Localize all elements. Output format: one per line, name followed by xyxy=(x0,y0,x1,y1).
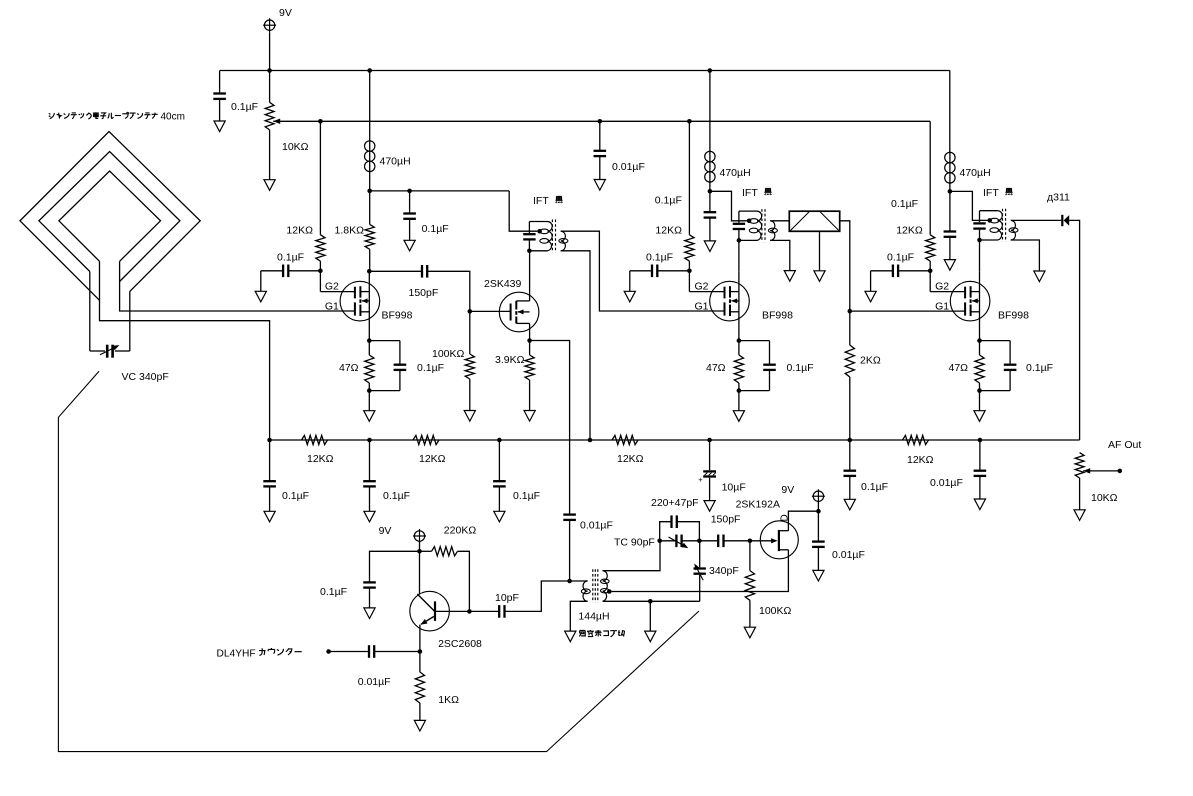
svg-text:47Ω: 47Ω xyxy=(339,362,359,374)
svg-text:470µH: 470µH xyxy=(720,167,751,179)
svg-text:1KΩ: 1KΩ xyxy=(438,694,459,706)
svg-text:0.1µF: 0.1µF xyxy=(787,362,814,374)
svg-text:TC 90pF: TC 90pF xyxy=(614,537,655,549)
svg-text:D: D xyxy=(780,514,791,521)
svg-text:150pF: 150pF xyxy=(409,287,439,299)
svg-text:0.1µF: 0.1µF xyxy=(646,252,673,264)
svg-text:100KΩ: 100KΩ xyxy=(432,348,465,360)
svg-text:BF998: BF998 xyxy=(762,310,793,322)
svg-text:BF998: BF998 xyxy=(998,310,1029,322)
svg-text:12KΩ: 12KΩ xyxy=(896,225,923,237)
svg-text:144µH: 144µH xyxy=(578,611,609,623)
svg-text:0.1µF: 0.1µF xyxy=(861,481,888,493)
svg-text:2SC2608: 2SC2608 xyxy=(438,638,482,650)
svg-text:BF998: BF998 xyxy=(382,310,413,322)
svg-text:0.01µF: 0.01µF xyxy=(930,477,963,489)
svg-text:100KΩ: 100KΩ xyxy=(759,605,792,617)
svg-text:150pF: 150pF xyxy=(711,514,741,526)
svg-text:0.1µF: 0.1µF xyxy=(655,195,682,207)
svg-text:12KΩ: 12KΩ xyxy=(286,225,313,237)
svg-text:G2: G2 xyxy=(325,281,339,293)
svg-text:0.1µF: 0.1µF xyxy=(1026,362,1053,374)
svg-text:2KΩ: 2KΩ xyxy=(860,355,881,367)
svg-text:47Ω: 47Ω xyxy=(949,362,969,374)
svg-text:д311: д311 xyxy=(1047,192,1070,204)
svg-text:12KΩ: 12KΩ xyxy=(419,453,446,465)
svg-text:IFT: IFT xyxy=(742,187,758,199)
svg-text:340pF: 340pF xyxy=(709,565,739,577)
svg-text:G1: G1 xyxy=(325,301,339,313)
svg-text:+: + xyxy=(698,475,703,484)
svg-text:IFT: IFT xyxy=(983,187,999,199)
svg-text:10KΩ: 10KΩ xyxy=(282,141,309,153)
svg-text:G2: G2 xyxy=(695,281,709,293)
svg-text:G1: G1 xyxy=(935,301,949,313)
svg-text:0.1µF: 0.1µF xyxy=(887,252,914,264)
svg-text:12KΩ: 12KΩ xyxy=(655,225,682,237)
svg-text:220KΩ: 220KΩ xyxy=(444,525,477,537)
svg-text:0.1µF: 0.1µF xyxy=(513,490,540,502)
svg-text:0.01µF: 0.01µF xyxy=(612,161,645,173)
svg-text:470µH: 470µH xyxy=(960,167,991,179)
svg-text:40cm: 40cm xyxy=(161,112,185,123)
svg-text:10KΩ: 10KΩ xyxy=(1091,492,1118,504)
svg-text:2SK192A: 2SK192A xyxy=(736,499,780,511)
svg-text:DL4YHF: DL4YHF xyxy=(217,649,256,660)
svg-text:9V: 9V xyxy=(781,484,794,496)
svg-text:AF Out: AF Out xyxy=(1108,439,1141,451)
svg-text:0.01µF: 0.01µF xyxy=(832,549,865,561)
svg-text:IFT: IFT xyxy=(533,195,549,207)
svg-text:470µH: 470µH xyxy=(380,156,411,168)
svg-text:0.1µF: 0.1µF xyxy=(277,252,304,264)
svg-text:0.1µF: 0.1µF xyxy=(231,101,258,113)
svg-text:2SK439: 2SK439 xyxy=(484,278,522,290)
svg-text:10pF: 10pF xyxy=(495,592,519,604)
svg-text:9V: 9V xyxy=(279,7,292,19)
svg-text:0.1µF: 0.1µF xyxy=(422,223,449,235)
svg-text:0.1µF: 0.1µF xyxy=(383,490,410,502)
svg-text:0.1µF: 0.1µF xyxy=(320,586,347,598)
svg-text:220+47pF: 220+47pF xyxy=(651,497,699,509)
svg-text:9V: 9V xyxy=(379,525,392,537)
svg-text:12KΩ: 12KΩ xyxy=(617,453,644,465)
svg-text:10µF: 10µF xyxy=(722,482,746,494)
svg-text:VC 340pF: VC 340pF xyxy=(122,371,169,383)
svg-text:0.01µF: 0.01µF xyxy=(358,676,391,688)
svg-text:G1: G1 xyxy=(695,301,709,313)
svg-text:3.9KΩ: 3.9KΩ xyxy=(495,354,525,366)
svg-text:47Ω: 47Ω xyxy=(706,362,726,374)
svg-text:12KΩ: 12KΩ xyxy=(307,453,334,465)
svg-text:0.1µF: 0.1µF xyxy=(891,198,918,210)
svg-text:0.1µF: 0.1µF xyxy=(417,362,444,374)
svg-text:12KΩ: 12KΩ xyxy=(907,454,934,466)
svg-text:0.01µF: 0.01µF xyxy=(580,520,613,532)
svg-text:1.8KΩ: 1.8KΩ xyxy=(335,225,365,237)
svg-text:0.1µF: 0.1µF xyxy=(282,490,309,502)
svg-text:G2: G2 xyxy=(935,281,949,293)
